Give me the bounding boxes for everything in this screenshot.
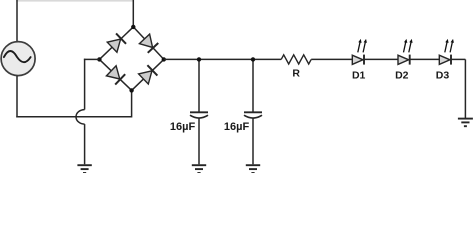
wire (AC neutral bottom run) — [16, 116, 131, 118]
wire (D3 cathode to right corner) — [451, 58, 465, 60]
wire (bridge positive output run to resistor) — [164, 58, 281, 60]
node (bridge bottom AC vertex) — [129, 88, 133, 92]
wire (AC source top lead) — [16, 0, 18, 42]
wire (top AC input drop) — [132, 0, 134, 27]
label D2 — [395, 70, 409, 82]
wire (top run from AC source to bridge AC input, clipped at image edge) — [16, 0, 134, 2]
AC source V1 — [1, 42, 35, 76]
wire (bridge edge top-right) — [133, 27, 164, 60]
wire (left vertex to ground stub) — [84, 58, 100, 60]
svg-text:D1: D1 — [352, 70, 366, 82]
wire (D1 cathode to D2 anode) — [364, 58, 398, 60]
capacitor C1 16uF — [190, 112, 208, 118]
node (bridge top AC vertex) — [131, 25, 135, 29]
label 16µF (C1 value) — [170, 121, 196, 133]
label 16µF (C2 value) — [224, 121, 250, 133]
wire (bottom AC input riser) — [131, 90, 133, 117]
label D1 — [352, 70, 366, 82]
svg-text:16µF: 16µF — [224, 121, 250, 133]
wire (ground stub vertical lower) — [84, 124, 86, 164]
diode (bridge, anode left vertex, cathode bottom vertex) — [106, 66, 125, 85]
wire (C2 bottom lead) — [252, 118, 254, 165]
node (bridge left negative vertex) — [97, 57, 101, 61]
svg-text:D3: D3 — [436, 70, 450, 82]
diode (bridge, anode left vertex, cathode top vertex) — [107, 33, 126, 52]
svg-text:16µF: 16µF — [170, 121, 196, 133]
wire (bridge edge bottom-right) — [132, 59, 164, 90]
wire (right ground drop) — [464, 59, 466, 118]
node (junction positive rail / C1) — [197, 57, 201, 61]
wire (AC source bottom lead) — [16, 76, 18, 118]
label D3 — [436, 70, 450, 82]
node (junction positive rail / C2) — [251, 57, 255, 61]
wire (C1 bottom lead) — [198, 118, 200, 165]
wire (resistor to LED D1) — [311, 58, 352, 60]
svg-text:D2: D2 — [395, 70, 409, 82]
wire (bridge edge left-bottom) — [99, 59, 131, 90]
wire (ground stub vertical upper) — [84, 59, 86, 110]
wire (bridge edge left-top) — [99, 27, 133, 60]
LED D3 — [439, 55, 451, 65]
ground (AC neutral ground) — [77, 165, 91, 173]
LED D2 — [398, 55, 410, 65]
svg-text:R: R — [292, 68, 300, 80]
node (bridge right positive vertex) — [162, 57, 166, 61]
LED D3 emission arrows — [445, 39, 454, 53]
diode (bridge, anode bottom vertex, cathode right vertex) — [139, 65, 158, 84]
resistor R — [281, 55, 311, 64]
wire (D2 cathode to D3 anode) — [410, 58, 440, 60]
LED D1 emission arrows — [358, 39, 367, 53]
ground (C1 ground) — [192, 165, 206, 173]
label R (resistor designator) — [292, 68, 300, 80]
LED D1 — [352, 55, 364, 65]
capacitor C2 16uF — [244, 112, 262, 118]
wire (C2 top lead) — [252, 59, 254, 112]
wire (hop over bottom wire) — [76, 110, 85, 125]
ground (C2 ground) — [246, 165, 260, 173]
wire (C1 top lead) — [198, 59, 200, 112]
LED D2 emission arrows — [404, 39, 413, 53]
diode (bridge, anode top vertex, cathode right vertex) — [139, 34, 158, 53]
ground (LED string return ground) — [458, 119, 473, 127]
